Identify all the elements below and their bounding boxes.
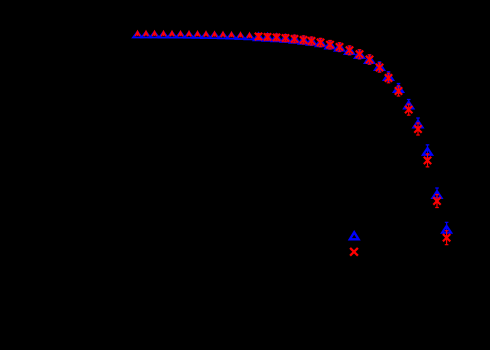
legend blue triangle marker: [350, 232, 359, 239]
blue series triangle markers: [254, 33, 451, 232]
red series error bars: [138, 33, 449, 245]
blue series error bars: [138, 33, 449, 236]
legend red X marker: [350, 248, 358, 256]
red series caret-over-triangle markers (dense overlap zone): [135, 32, 251, 39]
blue series triangle markers (dense flat zone): [133, 32, 254, 40]
red series X markers: [255, 33, 450, 242]
